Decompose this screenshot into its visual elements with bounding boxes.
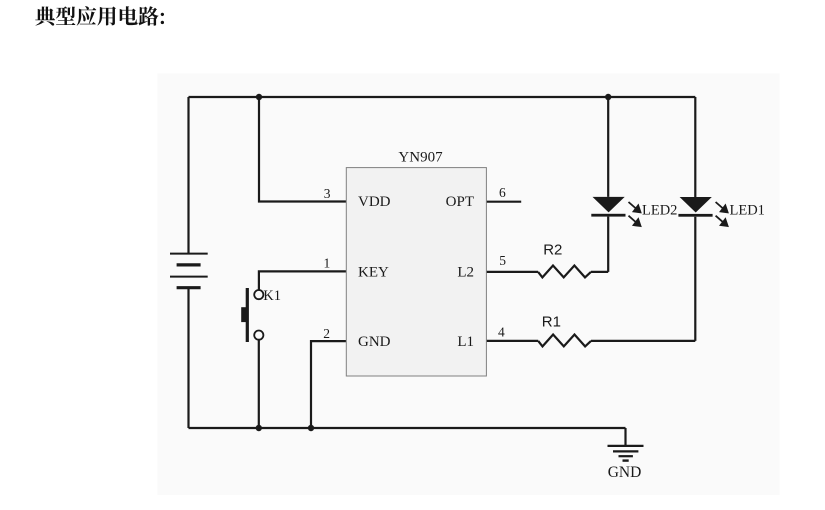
svg-text:LED1: LED1 [730, 202, 765, 218]
junction dot top LED2 [605, 94, 611, 100]
junction dot bottom GND pin [308, 425, 314, 431]
wire L1 pin 4 to R1 [486, 340, 538, 342]
svg-text:VDD: VDD [358, 194, 391, 210]
junction dot bottom switch [256, 425, 262, 431]
svg-text:5: 5 [499, 253, 506, 268]
svg-text:GND: GND [358, 334, 391, 350]
switch K1 [241, 288, 263, 342]
junction dot top VDD [256, 94, 262, 100]
svg-text:2: 2 [323, 326, 330, 341]
wire R2 to LED2 [591, 271, 608, 273]
wire ground drop [624, 428, 626, 446]
svg-text:L2: L2 [457, 264, 474, 280]
LED1 arrows [716, 202, 728, 226]
svg-text:OPT: OPT [446, 194, 474, 210]
wire VDD pin 3 [259, 97, 346, 202]
svg-text:L1: L1 [457, 334, 474, 350]
svg-text:LED2: LED2 [642, 202, 677, 218]
svg-text:R1: R1 [542, 313, 561, 330]
wire R1 to LED1 [591, 340, 695, 342]
svg-text:4: 4 [498, 325, 505, 340]
wire OPT pin 6 [486, 201, 521, 203]
ground symbol [608, 446, 644, 461]
wire top rail [189, 96, 696, 98]
LED2 diode [591, 197, 625, 217]
resistor R2 zigzag [538, 266, 591, 278]
wire left battery bottom [187, 288, 189, 428]
wire L2 pin 5 to R2 [486, 271, 538, 273]
svg-text:1: 1 [324, 256, 331, 271]
wire left battery top [187, 97, 189, 254]
svg-text:3: 3 [324, 186, 331, 201]
svg-text:K1: K1 [263, 288, 281, 304]
svg-text:GND: GND [608, 464, 642, 481]
svg-text:R2: R2 [543, 241, 562, 258]
LED1 diode [678, 197, 712, 217]
title 典型应用电路: [35, 6, 164, 26]
wire GND pin 2 [311, 341, 346, 428]
svg-text:KEY: KEY [358, 264, 389, 280]
wire LED2 cathode drop [607, 217, 609, 272]
schematic panel background [158, 73, 780, 495]
wire KEY pin 1 [259, 271, 346, 289]
resistor R1 zigzag [538, 335, 591, 347]
wire LED2 anode drop [607, 97, 609, 197]
svg-text:YN907: YN907 [398, 149, 443, 165]
wire LED1 cathode drop [694, 217, 696, 341]
svg-text:6: 6 [499, 185, 506, 200]
LED2 arrows [629, 202, 641, 226]
wire switch to bottom rail [258, 340, 260, 428]
wire LED1 anode drop [694, 97, 696, 197]
op-amp U1 YN907 box [346, 168, 486, 376]
wire bottom rail [189, 427, 626, 429]
battery BT1 [170, 254, 208, 288]
